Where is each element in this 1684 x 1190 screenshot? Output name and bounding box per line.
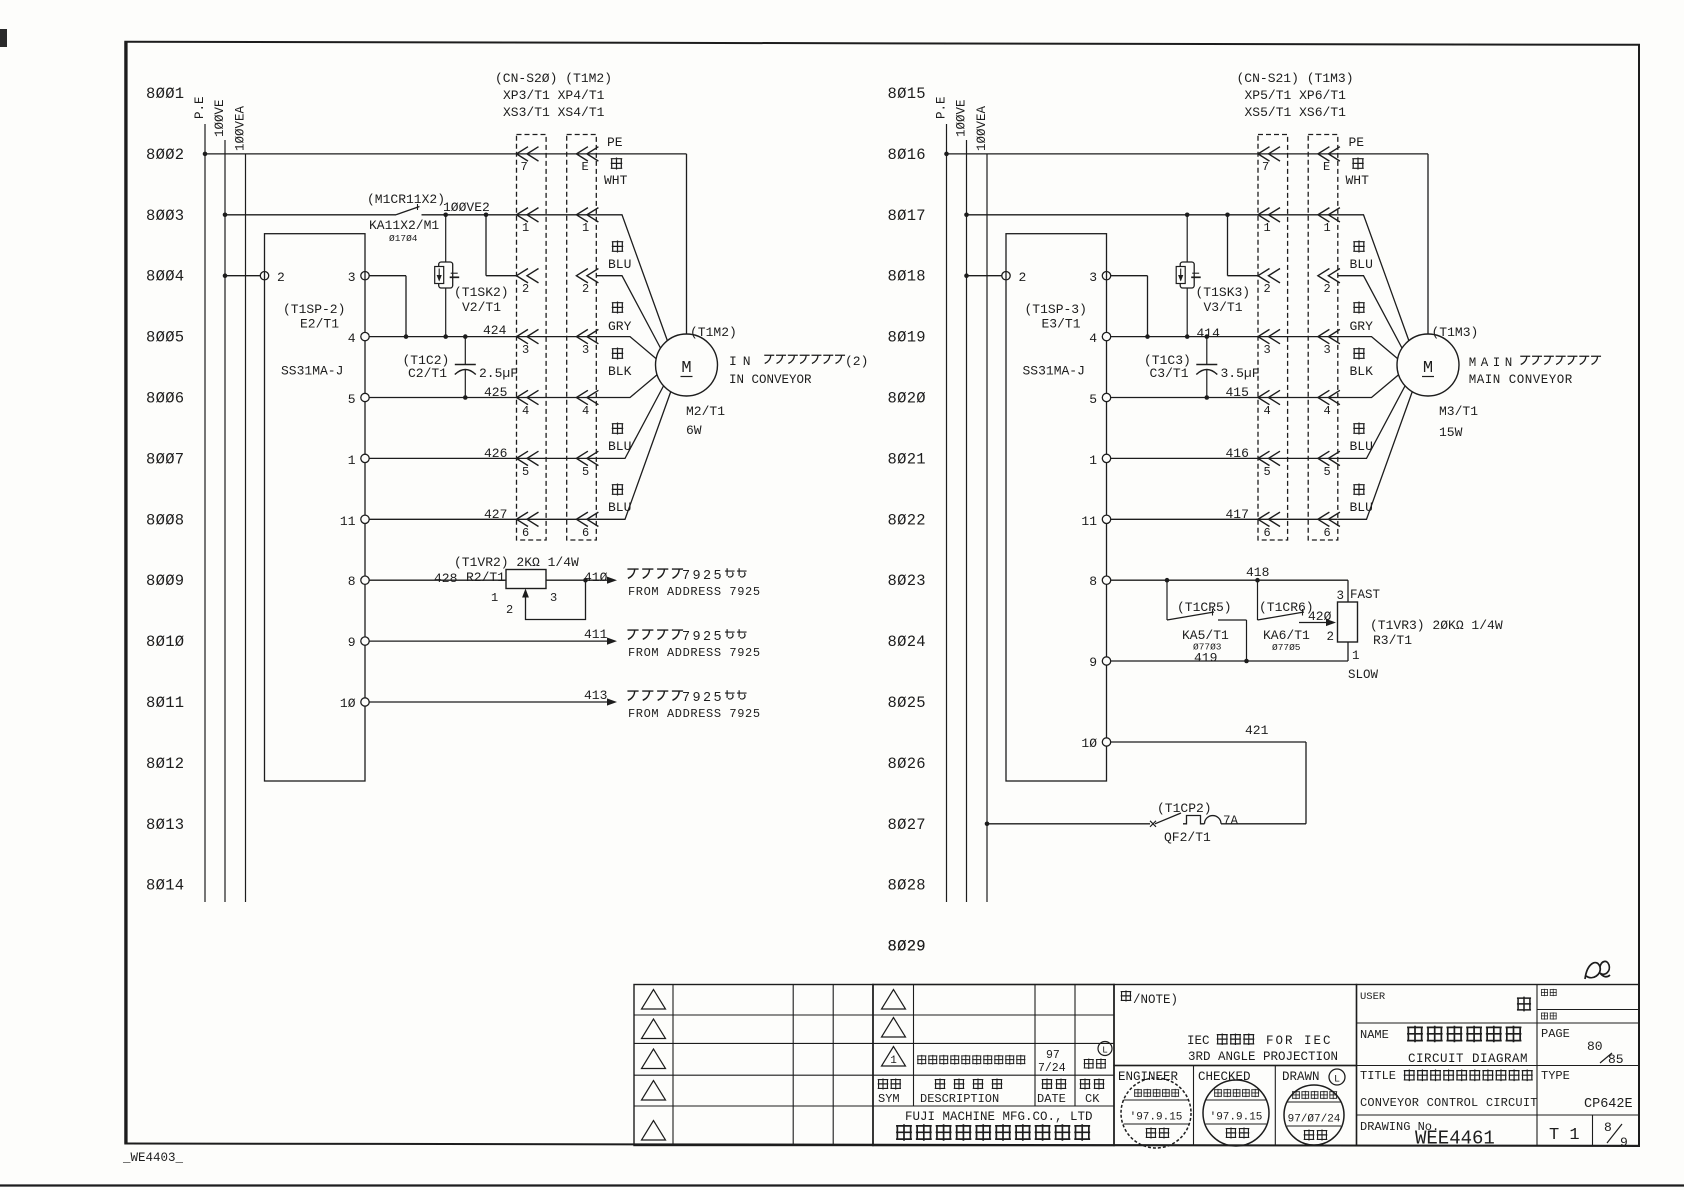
svg-text:1: 1 [1324,221,1331,235]
svg-text:8Ø21: 8Ø21 [888,450,926,468]
svg-text:(T1M3): (T1M3) [1432,325,1479,340]
svg-text:SYM: SYM [878,1092,900,1106]
wire 8009 to potentiometer [369,579,506,581]
svg-text:2: 2 [1264,282,1271,296]
revision table left [634,985,873,1146]
svg-text:1ØØVE: 1ØØVE [955,99,969,137]
connector pin arrows row 1 [517,208,539,222]
terminal circle 10 (right) [1102,738,1110,746]
junction capacitor top [1205,334,1210,339]
svg-text:BLU: BLU [608,257,631,272]
connector pin arrows row 6 [517,512,539,526]
svg-text:2: 2 [582,282,589,296]
svg-text:15W: 15W [1439,425,1463,440]
revision note jp row3 [917,1055,1025,1065]
wire 8007 net 426 [369,457,596,459]
svg-text:8ØØ5: 8ØØ5 [146,329,184,347]
svg-text:SS31MA-J: SS31MA-J [1023,364,1085,379]
svg-text:418: 418 [1246,565,1269,580]
page scan edge mark top-left [0,29,7,47]
svg-text:11: 11 [340,514,356,529]
svg-text:USER: USER [1360,991,1386,1003]
wire 420 arrow into pin2 [1299,622,1330,624]
wire down to VR3 pin3 [1347,580,1349,602]
motor lead row5 [596,385,664,458]
svg-text:SLOW: SLOW [1348,668,1379,682]
title info grid [1357,985,1640,1146]
svg-text:5: 5 [1324,465,1331,479]
arrow to address 413 [607,698,617,705]
connector pin arrows row 6 [1258,512,1280,526]
svg-text:415: 415 [1226,385,1249,400]
svg-text:IEC: IEC [1187,1034,1210,1048]
svg-text:411: 411 [584,627,608,642]
svg-text:XS3/T1 XS4/T1: XS3/T1 XS4/T1 [503,105,605,120]
wire 8004 terminal2 link [225,275,265,277]
svg-text:3: 3 [1089,270,1097,285]
svg-text:E: E [1323,160,1330,174]
svg-text:QF2/T1: QF2/T1 [1164,830,1211,845]
resistor T1VR3 body [1338,602,1358,642]
junction on P.E rail [203,152,208,157]
svg-text:IN CONVEYOR: IN CONVEYOR [729,373,812,387]
svg-text:E: E [582,160,589,174]
wire color BLU 3 [1353,484,1364,496]
svg-text:CIRCUIT DIAGRAM: CIRCUIT DIAGRAM [1408,1052,1528,1066]
svg-text:7: 7 [521,160,528,174]
terminal circle 11 [1102,515,1110,523]
svg-text:DESCRIPTION: DESCRIPTION [920,1092,999,1106]
svg-text:3: 3 [522,343,529,357]
terminal circle 10 (left) [361,698,369,706]
svg-text:11: 11 [1081,514,1097,529]
power rail 100VE [966,140,968,902]
svg-text:8Ø18: 8Ø18 [888,268,926,286]
svg-text:9: 9 [348,635,356,650]
svg-text:8Ø29: 8Ø29 [888,938,926,956]
wire 8023 net 418 [1111,579,1349,581]
wire terminal3 to cap column [369,275,406,277]
junction capacitor bottom [1205,395,1210,400]
svg-text:(M1CR11X2): (M1CR11X2) [367,192,445,207]
svg-text:8Ø24: 8Ø24 [888,633,926,651]
svg-text:1: 1 [1264,221,1271,235]
wiper arrow into pot [522,589,529,598]
junction on 100VE rail row3 [964,213,969,218]
svg-text:1: 1 [522,221,529,235]
capacitor T1C2 [464,337,466,365]
revision triangle M2 [882,1018,906,1038]
junction varistor tap [1185,213,1190,218]
contact M1CR11X2 blade [396,207,420,215]
wire pot out to 410 [546,579,612,581]
wire color BLU 2 [612,423,623,435]
svg-text:427: 427 [484,507,507,522]
seiban label [1541,1012,1557,1019]
svg-text:(T1SK3): (T1SK3) [1196,285,1251,300]
svg-text:1: 1 [582,221,589,235]
connector pin arrows PE row [517,147,539,161]
approval row cells [1114,1066,1357,1146]
svg-text:P.E: P.E [935,96,949,119]
terminal circle 3 [361,272,369,280]
svg-text:1: 1 [1089,453,1097,468]
power rail 100VEA [986,154,988,902]
DATE header jp [1042,1078,1067,1089]
svg-text:8Ø2Ø: 8Ø2Ø [888,390,926,408]
terminal circle 5 [361,393,369,401]
wire drop to connector row2 [1227,215,1229,276]
svg-text:WHT: WHT [604,173,628,188]
svg-text:4: 4 [1089,331,1097,346]
svg-text:6W: 6W [686,423,702,438]
wire color BLU 3 [612,484,623,496]
svg-text:41Ø: 41Ø [584,570,608,585]
wire 8016 PE net [947,153,1429,155]
svg-text:8Ø25: 8Ø25 [888,694,926,712]
svg-text:97: 97 [1046,1049,1060,1062]
speed controller box SS31MA-J [265,234,366,781]
wire PE drop to motor [686,154,688,334]
wire 421 horizontal [1111,741,1307,743]
svg-text:C2/T1: C2/T1 [408,366,447,381]
svg-text:M: M [681,359,691,378]
svg-text:(T1CR5): (T1CR5) [1177,600,1232,615]
contact T1CR6 [1257,580,1259,620]
motor lead row4 [596,374,658,398]
wire 8019 net 424 [1111,336,1338,338]
wire 8005 net 424 [369,336,596,338]
speed controller box SS31MA-J [1006,234,1107,781]
svg-text:KA11X2/M1: KA11X2/M1 [369,218,439,233]
svg-text:1: 1 [491,591,498,605]
revision triangle L2 [642,1019,666,1039]
motor M circle T1M2 [656,334,718,396]
handwritten A0 mark [1585,961,1610,979]
junction wiper loop [583,578,588,583]
svg-text:M3/T1: M3/T1 [1439,404,1478,419]
svg-text:6: 6 [1324,526,1331,540]
svg-text:426: 426 [484,446,507,461]
svg-text:1Ø: 1Ø [1081,736,1097,751]
svg-text:FOR IEC: FOR IEC [1266,1034,1333,1048]
terminal circle 2 [260,272,268,280]
svg-text:E3/T1: E3/T1 [1042,317,1081,332]
circled L drawn [1329,1069,1345,1085]
svg-text:8: 8 [1604,1120,1612,1135]
svg-text:R3/T1: R3/T1 [1373,633,1412,648]
svg-text:421: 421 [1245,723,1269,738]
terminal circle 3 [1102,272,1110,280]
junction CR6 tap [1255,578,1260,583]
terminal circle 9 (left) [361,637,369,645]
svg-text:6: 6 [582,526,589,540]
svg-text:2: 2 [277,270,285,285]
svg-text:8Ø22: 8Ø22 [888,511,926,529]
svg-text:4: 4 [348,331,356,346]
terminal circle 1 [361,454,369,462]
wire PE drop to motor [1427,154,1429,334]
circled L mark [1098,1042,1112,1056]
svg-text:8ØØ4: 8ØØ4 [146,268,184,286]
svg-text:414: 414 [1197,326,1221,341]
terminal circle 5 [1102,393,1110,401]
svg-text:7/24: 7/24 [1038,1062,1066,1075]
svg-text:8ØØ2: 8ØØ2 [146,146,184,164]
svg-text:9: 9 [1089,655,1097,670]
svg-text:R2/T1: R2/T1 [466,570,505,585]
svg-text:413: 413 [584,688,607,703]
junction on P.E rail [944,152,949,157]
wire color BLK [1353,348,1364,360]
SYM header [878,1078,901,1089]
svg-text:7925: 7925 [682,691,724,706]
title japanese [1404,1070,1533,1082]
junction t3 drop [404,334,409,339]
svg-text:8ØØ9: 8ØØ9 [146,572,184,590]
terminal circle 11 [361,515,369,523]
breaker magnetic arc [1205,816,1222,824]
wire 419 [1111,660,1349,662]
connector pin arrows row 4 [1258,390,1280,404]
breaker QF2 blade [1155,813,1181,824]
svg-text:3: 3 [582,343,589,357]
svg-text:97/Ø7/24: 97/Ø7/24 [1288,1114,1341,1126]
wire color GRY [1353,302,1364,314]
svg-text:428: 428 [434,571,457,586]
motor lead row3 [1338,337,1398,359]
revision triangle M1 [882,990,906,1010]
junction varistor tap [443,213,448,218]
svg-text:1ØØVE2: 1ØØVE2 [443,200,490,215]
svg-text:FROM ADDRESS 7925: FROM ADDRESS 7925 [628,646,761,660]
svg-text:3RD ANGLE PROJECTION: 3RD ANGLE PROJECTION [1188,1050,1338,1064]
svg-text:3.5µF: 3.5µF [1221,366,1260,381]
power rail 100VEA [245,154,247,902]
svg-text:FROM ADDRESS 7925: FROM ADDRESS 7925 [628,585,761,599]
dono mark [1517,997,1531,1012]
svg-text:1ØØVE: 1ØØVE [213,99,227,137]
svg-text:1Ø: 1Ø [340,696,356,711]
junction row2-drop tap [484,213,489,218]
breaker x mark [1150,821,1156,827]
wire CR5 to 419 [1246,620,1248,661]
svg-text:3: 3 [1264,343,1271,357]
svg-text:(T1CP2): (T1CP2) [1157,801,1212,816]
power rail P.E [946,124,948,902]
svg-text:8ØØ1: 8ØØ1 [146,85,184,103]
CHECKED stamp [1203,1080,1269,1146]
svg-text:XP3/T1 XP4/T1: XP3/T1 XP4/T1 [503,88,605,103]
contact T1CR5 [1166,580,1168,620]
svg-text:ENGINEER: ENGINEER [1118,1070,1179,1084]
connector pin arrows row 3 [517,329,539,343]
svg-text:(T1SK2): (T1SK2) [454,285,509,300]
junction varistor bottom [443,334,448,339]
revision CK Esaka [1084,1058,1106,1069]
svg-text:E2/T1: E2/T1 [300,317,339,332]
svg-text:BLK: BLK [608,364,632,379]
svg-text:(T1VR2) 2KΩ 1/4W: (T1VR2) 2KΩ 1/4W [454,555,579,570]
wire 8008 net 427 [369,518,596,520]
svg-text:8Ø16: 8Ø16 [888,146,926,164]
svg-text:5: 5 [582,465,589,479]
svg-text:417: 417 [1226,507,1249,522]
wire 8027 to breaker [987,823,1150,825]
svg-text:_WE4403_: _WE4403_ [122,1151,184,1165]
wire color BLK [612,348,623,360]
connector pin arrows row 4 [517,390,539,404]
junction on 100VE rail row4 [223,273,228,278]
svg-text:FUJI MACHINE MFG.CO., LTD: FUJI MACHINE MFG.CO., LTD [905,1110,1093,1124]
svg-text:425: 425 [484,385,507,400]
svg-text:MAIN: MAIN [1469,356,1517,370]
svg-text:8Ø17: 8Ø17 [888,207,926,225]
wire terminal3 to cap column [1111,275,1148,277]
svg-text:MAIN CONVEYOR: MAIN CONVEYOR [1469,373,1573,387]
note from-address row 8011 jp [627,691,683,700]
svg-text:CK: CK [1085,1092,1100,1106]
svg-text:P.E: P.E [193,96,207,119]
svg-text:7: 7 [1262,160,1269,174]
svg-text:8ØØ7: 8ØØ7 [146,450,184,468]
svg-text:'97.9.15: '97.9.15 [1130,1112,1183,1124]
wire 8003 100VE2 net [225,214,396,216]
svg-text:M: M [1423,359,1433,378]
power rail P.E [204,124,206,902]
connector housing XS (dashed) [1308,135,1338,541]
svg-text:4: 4 [1264,404,1271,418]
svg-text:PAGE: PAGE [1541,1027,1570,1041]
connector pin arrows row 3 [1258,329,1280,343]
svg-text:424: 424 [483,323,507,338]
svg-text:1ØØVEA: 1ØØVEA [234,105,248,151]
terminal circle 9 (right) [1102,657,1110,665]
wire color BLU 1 [612,241,623,253]
svg-text:(CN-S21) (T1M3): (CN-S21) (T1M3) [1237,71,1354,86]
svg-text:8Ø26: 8Ø26 [888,755,926,773]
junction t3 drop [1145,334,1150,339]
svg-text:BLK: BLK [1350,364,1374,379]
page bottom scan edge line [0,1184,1684,1186]
connector pin arrows row 5 [1258,451,1280,465]
terminal circle 8 (left) [361,576,369,584]
svg-text:WEE4461: WEE4461 [1415,1128,1495,1150]
motor lead row3 [596,337,656,359]
wire breaker to 421 corner [1221,823,1306,825]
terminal circle 4 [361,332,369,340]
svg-text:(T1M2): (T1M2) [690,325,737,340]
svg-text:XP5/T1 XP6/T1: XP5/T1 XP6/T1 [1245,88,1347,103]
svg-text:8Ø12: 8Ø12 [146,755,184,773]
CK header jp [1080,1078,1105,1089]
svg-text:8Ø19: 8Ø19 [888,329,926,347]
arrow to address 411 [607,638,617,645]
wire 8018 terminal2 link [967,275,1007,277]
motor lead row2 diagonal [1338,276,1403,349]
junction capacitor bottom [463,395,468,400]
svg-text:3: 3 [1337,589,1345,603]
svg-text:6: 6 [522,526,529,540]
svg-text:(T1CR6): (T1CR6) [1259,600,1314,615]
Fuji japanese company name [896,1124,1090,1141]
svg-text:(2): (2) [845,354,868,369]
svg-text:8ØØ8: 8ØØ8 [146,511,184,529]
svg-text:/NOTE): /NOTE) [1133,993,1178,1007]
wire 8011 net 413 [369,701,612,703]
capacitor T1C3 [1206,337,1208,365]
connector housing XP (dashed) [517,135,547,541]
svg-text:2: 2 [522,282,529,296]
svg-text:SS31MA-J: SS31MA-J [281,364,343,379]
breaker thermal square [1183,816,1205,824]
revision triangle L4 [642,1081,666,1101]
svg-text:7A: 7A [1223,814,1239,828]
svg-text:PE: PE [607,135,623,150]
svg-text:DRAWN: DRAWN [1282,1070,1320,1084]
svg-text:2: 2 [1019,270,1027,285]
svg-text:5: 5 [522,465,529,479]
wire color WHT [611,158,622,170]
svg-text:2: 2 [1326,630,1334,644]
wire 8020 net 425 [1111,397,1338,399]
svg-text:DATE: DATE [1037,1092,1066,1106]
svg-text:1: 1 [348,453,356,468]
wire color GRY [612,302,623,314]
svg-text:PE: PE [1349,135,1365,150]
DESCRIPTION header jp [935,1078,1003,1089]
potentiometer T1VR2 body [506,570,546,589]
svg-text:7925: 7925 [682,630,724,645]
svg-text:6: 6 [1264,526,1271,540]
svg-text:XS5/T1 XS6/T1: XS5/T1 XS6/T1 [1245,105,1347,120]
ENGINEER stamp [1121,1078,1191,1148]
svg-text:5: 5 [1089,392,1097,407]
wiper feedback loop [526,580,586,619]
svg-text:M2/T1: M2/T1 [686,404,725,419]
name japanese circuit diagram [1407,1026,1521,1043]
wire 8002 PE net [205,153,687,155]
svg-text:8: 8 [1089,574,1097,589]
svg-text:FROM ADDRESS 7925: FROM ADDRESS 7925 [628,707,761,721]
wire color BLU 2 [1353,423,1364,435]
svg-text:8Ø27: 8Ø27 [888,816,926,834]
wire 8010 net 411 [369,640,612,642]
junction on 100VEA rail row 8027 [985,822,990,827]
svg-text:GRY: GRY [608,319,632,334]
svg-text:(T1VR3) 2ØKΩ 1/4W: (T1VR3) 2ØKΩ 1/4W [1370,618,1503,633]
terminal circle 1 [1102,454,1110,462]
svg-text:L: L [1334,1075,1340,1086]
svg-text:Ø77Ø5: Ø77Ø5 [1272,642,1301,653]
revision triangle L5 [642,1121,666,1141]
svg-text:8: 8 [348,574,356,589]
motor lead row4 [1338,374,1400,398]
wire color BLU 1 [1353,241,1364,253]
svg-text:4: 4 [522,404,529,418]
svg-text:8Ø28: 8Ø28 [888,877,926,895]
svg-text:V3/T1: V3/T1 [1204,300,1243,315]
svg-text:8Ø14: 8Ø14 [146,877,184,895]
svg-text:'97.9.15: '97.9.15 [1210,1112,1263,1124]
svg-text:L: L [1102,1045,1108,1056]
svg-text:5: 5 [348,392,356,407]
bunban label [1541,989,1557,996]
junction capacitor top [463,334,468,339]
svg-text:7925: 7925 [682,569,724,584]
svg-text:TYPE: TYPE [1541,1069,1570,1083]
arrow to address 410 [607,577,617,584]
